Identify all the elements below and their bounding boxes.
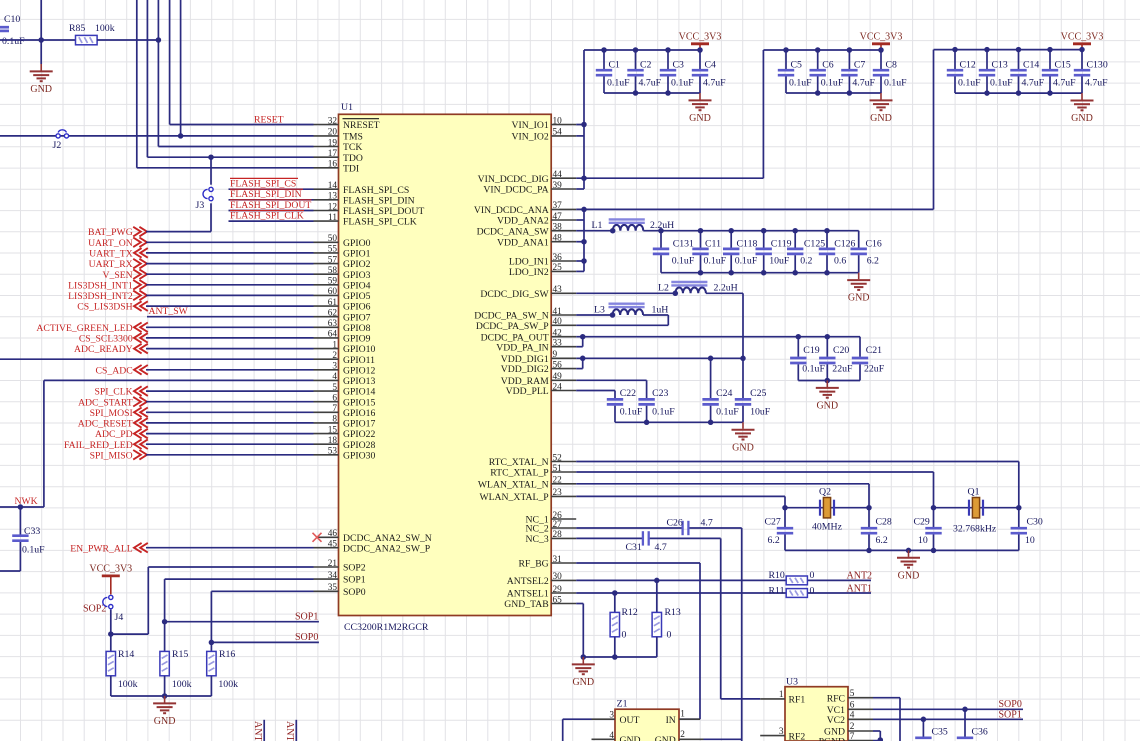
- svg-text:DCDC_DIG_SW: DCDC_DIG_SW: [480, 289, 549, 300]
- no-connect X on pin 46: [313, 533, 322, 542]
- svg-text:GPIO11: GPIO11: [343, 355, 375, 366]
- svg-text:65: 65: [553, 595, 563, 605]
- wire NC_3 down to U3 RF1: [720, 538, 722, 699]
- svg-text:100k: 100k: [95, 23, 115, 34]
- svg-text:VDD_DIG2: VDD_DIG2: [501, 364, 549, 375]
- svg-text:GPIO4: GPIO4: [343, 280, 371, 291]
- bank1 rails: [584, 49, 700, 51]
- svg-text:GND: GND: [732, 442, 754, 453]
- svg-text:ANT_SW: ANT_SW: [149, 306, 189, 317]
- svg-text:11: 11: [328, 213, 337, 223]
- bank2 rails: [763, 49, 881, 51]
- capacitor C23: [646, 397, 648, 399]
- svg-text:4.7uF: 4.7uF: [1022, 78, 1045, 89]
- svg-text:VIN_IO2: VIN_IO2: [512, 132, 549, 143]
- svg-text:22: 22: [553, 476, 563, 486]
- svg-text:12: 12: [328, 202, 338, 212]
- svg-text:GPIO13: GPIO13: [343, 376, 375, 387]
- wire VIN_DCDC_ANA to bank3: [576, 208, 933, 210]
- svg-text:19: 19: [328, 138, 338, 148]
- wire WLAN_XTAL_P: [576, 495, 785, 497]
- wire JTAG bundle verticals: [136, 0, 138, 168]
- svg-text:C131: C131: [673, 238, 694, 249]
- svg-text:5: 5: [332, 383, 337, 393]
- resistor R16: [210, 642, 212, 651]
- svg-text:ANTSEL2: ANTSEL2: [507, 576, 549, 587]
- wire VDD_ANA bottom rail: [661, 272, 859, 274]
- svg-text:GPIO17: GPIO17: [343, 419, 375, 430]
- svg-text:20: 20: [328, 128, 338, 138]
- svg-text:IN: IN: [666, 715, 676, 726]
- svg-text:4: 4: [850, 711, 855, 721]
- svg-text:L2: L2: [658, 283, 669, 294]
- svg-text:21: 21: [328, 559, 338, 569]
- svg-text:33: 33: [553, 339, 563, 349]
- bank1 left rail wire: [583, 50, 585, 189]
- wire GPIO11 long: [0, 358, 314, 360]
- svg-text:C36: C36: [972, 727, 988, 738]
- svg-text:0.1uF: 0.1uF: [735, 255, 758, 266]
- resistor R12: [614, 593, 616, 612]
- svg-text:C1: C1: [609, 60, 621, 71]
- svg-text:SOP2: SOP2: [83, 604, 106, 615]
- svg-text:VDD_PA_IN: VDD_PA_IN: [496, 342, 548, 353]
- capacitor C3: [667, 50, 669, 69]
- svg-text:4.7uF: 4.7uF: [639, 78, 662, 89]
- svg-text:RFC: RFC: [827, 693, 845, 704]
- svg-text:VIN_IO1: VIN_IO1: [512, 120, 549, 131]
- svg-text:10: 10: [1025, 535, 1035, 546]
- svg-text:ANT1: ANT1: [847, 583, 873, 594]
- wire L2 out to VDD_DIG rail: [706, 292, 743, 294]
- capacitor C12: [954, 50, 956, 69]
- capacitor C21: [859, 337, 861, 357]
- svg-text:18: 18: [328, 436, 338, 446]
- wire C19 C21 bottom rail: [798, 380, 860, 382]
- svg-text:1uH: 1uH: [652, 304, 669, 315]
- svg-text:2: 2: [850, 722, 855, 732]
- svg-text:ANT2: ANT2: [284, 721, 295, 741]
- capacitor C16: [858, 231, 860, 248]
- svg-text:GPIO0: GPIO0: [343, 238, 371, 249]
- capacitor C15: [1049, 50, 1051, 69]
- wire SOP0 label run: [211, 641, 319, 643]
- svg-text:51: 51: [553, 464, 563, 474]
- svg-text:0.1uF: 0.1uF: [671, 78, 694, 89]
- wire RTC_XTAL_N: [576, 461, 1019, 463]
- capacitor C4: [699, 50, 701, 69]
- svg-text:U1: U1: [341, 102, 353, 113]
- svg-text:GPIO7: GPIO7: [343, 312, 371, 323]
- svg-text:27: 27: [553, 520, 563, 530]
- svg-text:55: 55: [328, 245, 338, 255]
- wire VDD_PA_IN: [576, 346, 583, 348]
- svg-text:GND: GND: [689, 113, 711, 124]
- svg-text:35: 35: [328, 583, 338, 593]
- svg-text:C31: C31: [626, 542, 642, 553]
- svg-text:38: 38: [553, 223, 563, 233]
- U1 left pins: [314, 124, 339, 126]
- svg-text:FAIL_RED_LED: FAIL_RED_LED: [64, 440, 133, 451]
- capacitor C20: [826, 337, 828, 357]
- svg-text:UART_TX: UART_TX: [89, 249, 133, 260]
- svg-text:22uF: 22uF: [864, 364, 885, 375]
- svg-text:C20: C20: [833, 345, 849, 356]
- svg-text:C10: C10: [4, 14, 20, 25]
- wire FLASH_SPI_DIN: [229, 199, 314, 201]
- crystal Q2 40MHz: [819, 500, 821, 516]
- wire RF_BG to Z1 IN: [576, 562, 700, 564]
- Z1 pin 2 GND: [679, 738, 704, 740]
- svg-text:C35: C35: [932, 727, 948, 738]
- svg-text:NC_3: NC_3: [526, 534, 549, 545]
- svg-text:R85: R85: [69, 23, 85, 34]
- svg-text:0.1uF: 0.1uF: [607, 78, 630, 89]
- inductor L1 2.2uH: [613, 225, 644, 231]
- wire ANTSEL1: [576, 592, 786, 594]
- capacitor C25: [742, 358, 744, 398]
- svg-text:CC3200R1M2RGCR: CC3200R1M2RGCR: [344, 622, 429, 633]
- capacitor C5: [785, 50, 787, 69]
- op IC U1 body CC3200R1M2RGCR: [339, 114, 552, 615]
- wire TCK: [158, 146, 313, 148]
- svg-text:GPIO3: GPIO3: [343, 270, 371, 281]
- U3 pin 2 GND: [848, 730, 873, 732]
- svg-text:UART_ON: UART_ON: [88, 238, 133, 249]
- svg-text:0.2: 0.2: [800, 255, 812, 266]
- svg-text:RTC_XTAL_P: RTC_XTAL_P: [490, 468, 548, 479]
- svg-text:C6: C6: [822, 60, 834, 71]
- svg-text:LDO_IN1: LDO_IN1: [509, 257, 549, 268]
- svg-text:GPIO10: GPIO10: [343, 344, 375, 355]
- wire J4 to R14: [110, 610, 112, 652]
- U3 pin 3 RF2: [760, 735, 785, 737]
- svg-text:RF2: RF2: [789, 731, 806, 741]
- svg-text:7: 7: [332, 404, 337, 414]
- svg-text:C2: C2: [640, 60, 652, 71]
- U1 right pins: [551, 124, 576, 126]
- svg-text:WLAN_XTAL_P: WLAN_XTAL_P: [480, 492, 549, 503]
- svg-text:0: 0: [667, 630, 672, 641]
- svg-text:C22: C22: [620, 388, 636, 399]
- svg-text:0.1uF: 0.1uF: [704, 255, 727, 266]
- wire VDD_ANA vertical: [583, 209, 585, 271]
- svg-text:6.2: 6.2: [876, 535, 888, 546]
- svg-text:4.7uF: 4.7uF: [1053, 78, 1076, 89]
- svg-text:VDD_ANA2: VDD_ANA2: [497, 216, 549, 227]
- jumper J3: [210, 157, 212, 185]
- svg-text:Q1: Q1: [968, 487, 980, 498]
- svg-text:BAT_PWG: BAT_PWG: [88, 227, 133, 238]
- svg-text:FLASH_SPI_DIN: FLASH_SPI_DIN: [230, 189, 302, 200]
- svg-text:10uF: 10uF: [750, 407, 771, 418]
- svg-text:100k: 100k: [218, 679, 238, 690]
- svg-text:VCC_3V3: VCC_3V3: [679, 31, 722, 42]
- resistor R10: [786, 576, 807, 585]
- svg-text:RF1: RF1: [789, 695, 806, 706]
- inductor L2 2.2uH: [675, 287, 706, 293]
- svg-text:FLASH_SPI_DOUT: FLASH_SPI_DOUT: [230, 200, 311, 211]
- svg-text:23: 23: [553, 488, 563, 498]
- svg-text:4.7uF: 4.7uF: [852, 78, 875, 89]
- svg-text:C25: C25: [750, 388, 766, 399]
- svg-text:SOP1: SOP1: [295, 611, 318, 622]
- resistor R14: [164, 622, 166, 652]
- svg-text:LIS3DSH_INT2: LIS3DSH_INT2: [68, 291, 133, 302]
- svg-text:C13: C13: [992, 60, 1008, 71]
- wire FLASH_SPI_CS: [229, 188, 314, 190]
- capacitor C130: [1081, 50, 1083, 69]
- svg-text:59: 59: [328, 277, 338, 287]
- svg-text:VCC_3V3: VCC_3V3: [1061, 31, 1104, 42]
- svg-text:1: 1: [332, 340, 337, 350]
- svg-text:CS_ADC: CS_ADC: [96, 365, 133, 376]
- svg-text:GPIO15: GPIO15: [343, 397, 375, 408]
- svg-text:6.2: 6.2: [867, 255, 879, 266]
- wire VDD_PLL: [576, 390, 615, 392]
- U3 pin 1 RF1: [760, 698, 785, 700]
- wire NC_3 with C31: [576, 537, 643, 539]
- ground below C20: [826, 381, 828, 388]
- svg-text:4: 4: [332, 372, 337, 382]
- svg-text:0.1uF: 0.1uF: [802, 364, 825, 375]
- svg-text:GND: GND: [154, 716, 176, 727]
- svg-text:34: 34: [328, 571, 338, 581]
- svg-text:J4: J4: [115, 612, 124, 623]
- inductor L3 1uH: [613, 309, 644, 315]
- svg-text:R14: R14: [118, 649, 134, 660]
- svg-text:LIS3DSH_INT1: LIS3DSH_INT1: [68, 280, 133, 291]
- wire SOP1 pin34: [165, 578, 314, 580]
- svg-text:15: 15: [328, 425, 338, 435]
- wire 32kHz crystal row: [934, 507, 1019, 509]
- svg-text:C23: C23: [652, 388, 668, 399]
- svg-text:49: 49: [553, 372, 563, 382]
- svg-text:SOP1: SOP1: [999, 709, 1022, 720]
- wire FLASH_SPI_CLK: [229, 220, 314, 222]
- wire DCDC_ANA_SW: [576, 230, 613, 232]
- resistor R85: [76, 35, 98, 44]
- port ANT1 bottom: [263, 720, 265, 741]
- svg-text:GND: GND: [572, 677, 594, 688]
- ground below crystal rail: [908, 550, 910, 557]
- capacitor C14: [1018, 50, 1020, 69]
- svg-text:TDO: TDO: [343, 153, 363, 164]
- wire VDD_DIG1 rail: [576, 357, 743, 359]
- svg-text:GPIO8: GPIO8: [343, 323, 371, 334]
- svg-text:C130: C130: [1087, 60, 1108, 71]
- svg-text:GND: GND: [30, 84, 52, 95]
- svg-text:17: 17: [328, 149, 338, 159]
- svg-text:GPIO1: GPIO1: [343, 249, 371, 260]
- svg-text:SOP2: SOP2: [343, 563, 366, 574]
- svg-text:SOP1: SOP1: [343, 575, 366, 586]
- wire FLASH_SPI_DOUT: [229, 210, 314, 212]
- wire RFC down: [873, 697, 900, 699]
- wire NRESET: [170, 124, 314, 126]
- svg-text:DCDC_ANA2_SW_P: DCDC_ANA2_SW_P: [343, 543, 430, 554]
- wire crystal caps bottom rail: [785, 549, 1019, 551]
- svg-text:C8: C8: [886, 60, 898, 71]
- svg-text:5: 5: [850, 689, 855, 699]
- svg-text:VDD_PLL: VDD_PLL: [506, 386, 549, 397]
- resistor R15: [160, 651, 169, 675]
- svg-text:R12: R12: [622, 607, 638, 618]
- svg-text:40: 40: [553, 317, 563, 327]
- svg-text:52: 52: [553, 453, 563, 463]
- svg-text:R10: R10: [769, 570, 785, 581]
- wire ANTSEL2: [576, 579, 786, 581]
- resistor R11: [786, 589, 807, 598]
- svg-text:L3: L3: [594, 304, 605, 315]
- wire C22 C25 bottom rail: [615, 421, 743, 423]
- capacitor C10: [0, 26, 9, 29]
- bank3 ground: [1081, 93, 1083, 100]
- svg-text:VCC_3V3: VCC_3V3: [89, 563, 132, 574]
- antenna switch U3 body: [785, 687, 848, 741]
- svg-text:62: 62: [328, 309, 338, 319]
- capacitor C126: [826, 231, 828, 248]
- svg-text:0.1uF: 0.1uF: [821, 78, 844, 89]
- svg-text:DCDC_ANA2_SW_N: DCDC_ANA2_SW_N: [343, 533, 432, 544]
- svg-text:U3: U3: [786, 677, 798, 688]
- svg-text:64: 64: [328, 330, 338, 340]
- svg-text:48: 48: [553, 234, 563, 244]
- svg-text:GPIO12: GPIO12: [343, 365, 375, 376]
- svg-text:50: 50: [328, 234, 338, 244]
- svg-text:36: 36: [553, 253, 563, 263]
- U3 pin 5 RFC: [848, 697, 873, 699]
- svg-text:60: 60: [328, 287, 338, 297]
- svg-text:C12: C12: [960, 60, 976, 71]
- svg-text:1: 1: [779, 690, 784, 700]
- svg-text:37: 37: [553, 201, 563, 211]
- svg-text:L1: L1: [592, 220, 603, 231]
- wire Z1 OUT to edge: [563, 718, 592, 720]
- Z1 pin 3 OUT: [592, 718, 616, 720]
- svg-text:32.768kHz: 32.768kHz: [953, 524, 997, 535]
- svg-text:DCDC_PA_SW_P: DCDC_PA_SW_P: [476, 321, 549, 332]
- jumper J2: [56, 134, 60, 138]
- wire C33 to edge: [0, 570, 20, 572]
- wire DCDC_PA_SW_N: [576, 314, 612, 316]
- svg-text:ADC_READY: ADC_READY: [74, 344, 133, 355]
- resistor R13: [656, 580, 658, 612]
- capacitor C125: [794, 231, 796, 248]
- svg-text:C27: C27: [765, 517, 781, 528]
- svg-text:VC2: VC2: [827, 715, 845, 726]
- U3 pin 6 VC1: [848, 708, 873, 710]
- wire Z1 GND2 to NC2 net: [704, 738, 742, 740]
- capacitor C27: [784, 508, 786, 527]
- svg-text:Q2: Q2: [819, 487, 831, 498]
- svg-text:2: 2: [680, 730, 685, 740]
- svg-text:4.7: 4.7: [701, 518, 713, 529]
- svg-text:SOP0: SOP0: [295, 632, 318, 643]
- svg-text:FLASH_SPI_CLK: FLASH_SPI_CLK: [343, 217, 417, 228]
- svg-text:32: 32: [328, 116, 338, 126]
- svg-text:FLASH_SPI_CS: FLASH_SPI_CS: [343, 185, 409, 196]
- svg-text:13: 13: [328, 192, 338, 202]
- svg-text:TMS: TMS: [343, 132, 363, 143]
- capacitor C19: [797, 337, 799, 357]
- wire VIN_DCDC_PA: [576, 188, 584, 190]
- svg-text:3: 3: [779, 727, 784, 737]
- svg-text:GND: GND: [816, 401, 838, 412]
- capacitor C30: [1018, 508, 1020, 527]
- svg-text:0.1uF: 0.1uF: [672, 255, 695, 266]
- svg-text:47: 47: [553, 212, 563, 222]
- svg-text:GPIO30: GPIO30: [343, 450, 375, 461]
- svg-text:CS_LIS3DSH: CS_LIS3DSH: [77, 302, 132, 313]
- jumper J4: [109, 595, 113, 599]
- svg-text:C5: C5: [791, 60, 803, 71]
- svg-text:NWK: NWK: [15, 496, 38, 507]
- capacitor C118: [730, 231, 732, 248]
- svg-text:GPIO2: GPIO2: [343, 259, 371, 270]
- svg-text:PGND: PGND: [819, 736, 845, 741]
- svg-text:0.1uF: 0.1uF: [716, 407, 739, 418]
- svg-text:VIN_DCDC_DIG: VIN_DCDC_DIG: [478, 174, 549, 185]
- svg-text:9: 9: [553, 350, 558, 360]
- capacitor C24: [710, 358, 712, 398]
- svg-text:C16: C16: [866, 238, 882, 249]
- svg-text:GND: GND: [898, 570, 920, 581]
- svg-text:EN_PWR_ALL: EN_PWR_ALL: [70, 543, 133, 554]
- svg-text:NC_2: NC_2: [526, 524, 549, 535]
- svg-text:41: 41: [553, 307, 563, 317]
- svg-text:C4: C4: [705, 60, 717, 71]
- svg-text:J3: J3: [196, 200, 205, 211]
- svg-text:8: 8: [332, 415, 337, 425]
- svg-text:24: 24: [553, 382, 563, 392]
- svg-text:30: 30: [553, 572, 563, 582]
- svg-text:ANTSEL1: ANTSEL1: [507, 589, 549, 600]
- capacitor C11: [700, 231, 702, 248]
- capacitor C13: [986, 50, 988, 69]
- svg-text:2.2uH: 2.2uH: [714, 283, 738, 294]
- svg-text:DCDC_ANA_SW: DCDC_ANA_SW: [477, 226, 550, 237]
- svg-text:GND: GND: [848, 293, 870, 304]
- svg-text:2: 2: [332, 351, 337, 361]
- wire 40MHz crystal row: [785, 507, 869, 509]
- svg-text:4.7: 4.7: [655, 542, 667, 553]
- wire WLAN_XTAL_N: [576, 483, 869, 485]
- ground below C25: [742, 422, 744, 429]
- svg-text:0.6: 0.6: [834, 255, 846, 266]
- capacitor C22: [614, 397, 616, 400]
- svg-text:GPIO14: GPIO14: [343, 387, 375, 398]
- svg-text:C29: C29: [914, 517, 930, 528]
- svg-text:GND: GND: [620, 735, 641, 741]
- svg-text:GPIO9: GPIO9: [343, 334, 371, 345]
- wire C10 GND drop: [40, 0, 42, 64]
- wire L3 out to DCDC_PA_SW_P: [643, 314, 668, 316]
- svg-text:NRESET: NRESET: [343, 120, 380, 131]
- svg-text:31: 31: [553, 555, 563, 565]
- svg-text:57: 57: [328, 255, 338, 265]
- U3 pin 4 VC2: [848, 718, 873, 720]
- capacitor C1: [603, 50, 605, 69]
- wire VDD_DIG2: [576, 368, 583, 370]
- wire RTC_XTAL_P: [576, 471, 933, 473]
- wire SOP0 pin35: [211, 590, 313, 592]
- svg-text:46: 46: [328, 529, 338, 539]
- ground below C16: [858, 273, 860, 280]
- svg-text:10: 10: [553, 116, 563, 126]
- svg-text:0.1uF: 0.1uF: [990, 78, 1013, 89]
- svg-text:VIN_DCDC_PA: VIN_DCDC_PA: [483, 185, 548, 196]
